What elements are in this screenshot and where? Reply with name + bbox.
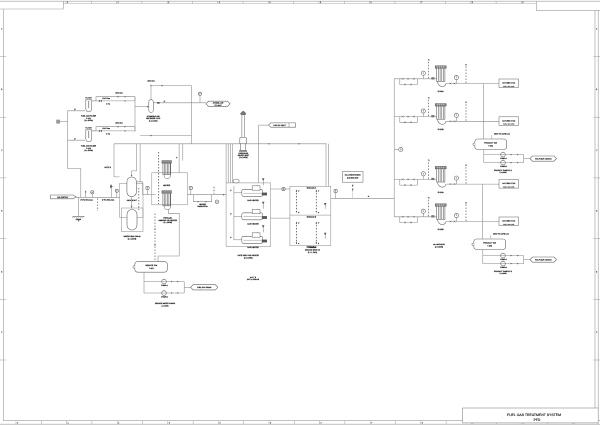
arrow heater unit H-1 bbox=[262, 178, 264, 181]
arrow heater unit H-2 bbox=[262, 202, 264, 205]
border right double line bbox=[594, 10, 596, 408]
svg-text:T-302: T-302 bbox=[487, 244, 492, 247]
wire filter F-1 outlet pair bbox=[92, 100, 135, 102]
instrument circle train 2 b bbox=[454, 113, 458, 117]
bypass loop train 4 bbox=[400, 217, 418, 223]
svg-text:GATE SKID GAS HEATER: GATE SKID GAS HEATER bbox=[237, 254, 259, 257]
wire train 3 outlet bbox=[446, 183, 499, 185]
vessel knockout drum V-101 bbox=[127, 177, 136, 197]
svg-text:KNOCKOUT: KNOCKOUT bbox=[127, 199, 138, 202]
svg-text:2″-FG-001-A1A: 2″-FG-001-A1A bbox=[80, 199, 93, 202]
svg-text:(1 x 100%): (1 x 100%) bbox=[149, 119, 158, 122]
callout gas conditioning box bbox=[342, 172, 363, 183]
wire train 2 inlet bbox=[394, 116, 436, 118]
callout gas turbine 3 bbox=[499, 180, 519, 189]
bypass loop train 3 bbox=[400, 179, 418, 185]
wire knockout outlet top bbox=[136, 182, 142, 195]
arrow module B inlet bbox=[176, 157, 177, 159]
instrument circle main out bbox=[334, 189, 337, 192]
electric heater train 4 bbox=[435, 204, 446, 206]
svg-text:PRODUCT TAN: PRODUCT TAN bbox=[484, 142, 497, 145]
callout gas turbine 4 bbox=[499, 217, 519, 226]
wire zone flag to filter header bbox=[60, 121, 67, 123]
svg-text:E-202B: E-202B bbox=[438, 228, 445, 231]
wire tank G1 to pumps bbox=[483, 150, 485, 163]
pump drain B bbox=[162, 291, 167, 296]
wire drop to tank 2 bbox=[481, 184, 483, 239]
callout GAS SUPPLY bbox=[51, 195, 77, 199]
right ruler ticks bbox=[594, 56, 600, 58]
svg-text:GAS HEATER: GAS HEATER bbox=[247, 246, 259, 249]
svg-text:GAS HEATER: GAS HEATER bbox=[247, 223, 259, 226]
svg-text:(1 x 100%): (1 x 100%) bbox=[128, 237, 137, 240]
svg-text:(2 + 1 PKG): (2 + 1 PKG) bbox=[308, 251, 318, 254]
package box seal drum bbox=[122, 208, 144, 232]
svg-text:FGH PUMP STATION: FGH PUMP STATION bbox=[535, 258, 552, 261]
instrument branch 1 bbox=[85, 191, 87, 198]
pump G2 B bbox=[501, 261, 506, 266]
wire header drops to heater skid bbox=[225, 144, 227, 183]
arrowheads filter F-2 bbox=[125, 126, 126, 127]
package box knockout drum bbox=[120, 184, 144, 218]
wire distribution header bbox=[393, 79, 395, 217]
top-left revision box bbox=[0, 1, 63, 9]
instrument dashed drop main bbox=[97, 199, 99, 212]
svg-text:T: T bbox=[456, 177, 457, 180]
standby dashed risers row2 bbox=[296, 222, 298, 244]
instrument dashed train 3 b bbox=[465, 167, 467, 184]
wire service tank to pumps bbox=[143, 272, 145, 293]
wire pumps G2 collector bbox=[523, 256, 525, 264]
wire dashed drain line bbox=[154, 214, 156, 262]
svg-text:GA SUPPLY: GA SUPPLY bbox=[57, 196, 69, 199]
package box gate heater skid bbox=[226, 183, 270, 247]
instrument dashed train 1 b bbox=[465, 67, 467, 84]
svg-text:T: T bbox=[456, 214, 457, 217]
svg-text:FILTER: FILTER bbox=[85, 127, 92, 130]
svg-text:T: T bbox=[423, 110, 424, 113]
wire train 4 inlet bbox=[394, 216, 436, 218]
svg-text:TO UNIT: TO UNIT bbox=[214, 104, 222, 107]
top ruler ticks bbox=[65, 1, 67, 3]
callout vent flag bbox=[269, 123, 296, 127]
wire header drops to module B bbox=[178, 144, 180, 173]
svg-text:E-201A: E-201A bbox=[438, 90, 445, 93]
instrument dashed drop conditioning bbox=[352, 185, 354, 188]
svg-text:SIMULATION: SIMULATION bbox=[197, 205, 208, 208]
svg-text:PFD: PFD bbox=[534, 418, 541, 422]
wire tank G2 to pumps bbox=[482, 250, 484, 264]
electric heater train 3 bbox=[435, 166, 446, 168]
divider standby module bbox=[290, 214, 331, 216]
instrument dashed train 4 a bbox=[428, 200, 430, 217]
arrows drain pumps bbox=[171, 281, 172, 282]
bypass loop train 2 bbox=[400, 117, 418, 123]
instrument circle train 3 b bbox=[454, 176, 458, 180]
svg-text:FGH PUMP STATION: FGH PUMP STATION bbox=[535, 157, 552, 160]
svg-text:GA CONDITIONING: GA CONDITIONING bbox=[345, 174, 361, 177]
electric heater train 1 bbox=[435, 66, 446, 68]
svg-text:MODULE A: MODULE A bbox=[307, 187, 317, 190]
exchanger E-101 upper bbox=[162, 161, 172, 164]
wire train 3 inlet bbox=[394, 178, 436, 180]
svg-text:2 x 100%: 2 x 100% bbox=[499, 171, 507, 174]
svg-text:T-401: T-401 bbox=[149, 267, 154, 270]
wire vent flag line bbox=[259, 124, 269, 126]
wire filter header down to main line bbox=[68, 169, 81, 198]
arrows standby bbox=[324, 203, 326, 206]
wire vent loop right vertical bbox=[191, 86, 193, 144]
svg-text:T: T bbox=[423, 173, 424, 176]
arrow heater unit H-3 bbox=[262, 225, 264, 228]
svg-text:SERVICE TAN: SERVICE TAN bbox=[145, 264, 157, 267]
svg-text:GA TURB GT #2: GA TURB GT #2 bbox=[502, 119, 515, 122]
wire pumps G1 collector bbox=[523, 155, 525, 163]
svg-text:T: T bbox=[456, 76, 457, 79]
instrument circle PI-2 bbox=[115, 189, 118, 192]
svg-text:T-301: T-301 bbox=[488, 144, 493, 147]
tank service bbox=[135, 262, 168, 273]
svg-text:T: T bbox=[423, 72, 424, 75]
svg-text:(2 x 100%): (2 x 100%) bbox=[84, 149, 93, 152]
svg-text:GA TURB GT #1: GA TURB GT #1 bbox=[502, 82, 515, 85]
wire knockout to seal drum bbox=[131, 197, 133, 209]
package box gas heater module bbox=[152, 173, 188, 205]
instrument circle after knockout bbox=[146, 186, 149, 189]
arrows pumps G2 bbox=[511, 255, 512, 256]
svg-text:FUEL GAS TREATMENT SYSTEM: FUEL GAS TREATMENT SYSTEM bbox=[507, 413, 561, 417]
svg-text:NOTE 3: NOTE 3 bbox=[104, 166, 111, 169]
instrument circle train 4 a bbox=[421, 209, 425, 213]
exchanger E-102 lower bbox=[162, 191, 172, 194]
heater unit H-3 bbox=[234, 239, 242, 241]
wire filter F-2 outlet pair bbox=[92, 130, 135, 132]
border left line bbox=[2, 9, 4, 421]
wire skid to standby bottom bbox=[271, 217, 290, 219]
svg-text:E-201B: E-201B bbox=[438, 128, 445, 131]
instrument circle PI-1 bbox=[91, 191, 94, 194]
wire vent loop up bbox=[150, 86, 152, 100]
svg-text:(2 x 100%): (2 x 100%) bbox=[244, 256, 253, 259]
standby dashed risers row1 bbox=[296, 190, 298, 213]
wire header left drop bbox=[114, 144, 120, 177]
wire exchanger drain path bbox=[158, 210, 179, 262]
svg-text:T: T bbox=[456, 114, 457, 117]
valve branch with instrument bbox=[111, 184, 113, 197]
border bottom ruler lines bbox=[3, 420, 600, 422]
svg-text:ATM Vent: ATM Vent bbox=[115, 92, 123, 95]
instrument circle train 3 a bbox=[421, 172, 425, 176]
svg-text:2: 2 bbox=[400, 148, 401, 151]
electric heater train 2 bbox=[435, 104, 446, 106]
heater unit H-1 bbox=[234, 192, 242, 194]
svg-text:ATM Vent: ATM Vent bbox=[147, 80, 155, 83]
instrument circle bypass bbox=[215, 200, 218, 203]
valve filter F-2 b bbox=[117, 126, 119, 128]
bottom ruler ticks bbox=[15, 421, 17, 425]
svg-text:VENT TO SAFE LOC: VENT TO SAFE LOC bbox=[494, 132, 511, 135]
instrument circle after module B bbox=[189, 186, 192, 189]
tank G2 bbox=[474, 239, 506, 250]
bypass loop train 1 bbox=[400, 79, 418, 85]
wire train 1 outlet bbox=[446, 83, 499, 85]
callout gas turbine 1 bbox=[499, 79, 519, 88]
instrument dashed train 4 b bbox=[465, 205, 467, 222]
pump G1 B bbox=[501, 160, 506, 165]
svg-text:(2 x 100%): (2 x 100%) bbox=[435, 245, 444, 248]
svg-text:E-202A: E-202A bbox=[438, 191, 445, 194]
wire main line to header bbox=[331, 197, 394, 199]
pump G1 A bbox=[501, 152, 506, 157]
wire skid to standby top bbox=[271, 188, 290, 190]
wire vent loop top bbox=[151, 85, 192, 87]
wire drain collector bbox=[183, 282, 185, 293]
title block bbox=[463, 408, 599, 423]
arrowheads filter F-1 bbox=[125, 96, 126, 97]
valve filter F-1 b bbox=[117, 96, 119, 98]
mini seal vessel on skid bbox=[233, 179, 239, 183]
relief valve stack PSV-1 bbox=[240, 111, 246, 115]
vessel atomizing air receiver bbox=[149, 100, 154, 113]
wire train 2 outlet bbox=[446, 120, 499, 122]
callout ATOMIZING AIR TO UNIT bbox=[206, 101, 230, 106]
svg-text:(2 x 100%): (2 x 100%) bbox=[84, 119, 93, 122]
svg-text:PRODUCT TAN: PRODUCT TAN bbox=[483, 242, 496, 245]
wire atomizing outlet bbox=[153, 102, 206, 104]
svg-text:VENT TO SAFE LOC: VENT TO SAFE LOC bbox=[493, 232, 510, 235]
tank G1 bbox=[475, 139, 507, 150]
instrument circle train 2 a bbox=[421, 109, 425, 113]
wire vent loop return bbox=[140, 135, 191, 137]
zone circle header bbox=[399, 147, 403, 151]
border top ruler inner line bbox=[63, 3, 536, 5]
top-right corner box bbox=[536, 1, 600, 10]
svg-text:ATM Vent: ATM Vent bbox=[115, 122, 123, 125]
wire skid internal header bbox=[233, 186, 235, 240]
instrument circle between boxes bbox=[282, 187, 285, 190]
svg-text:2 x 100%: 2 x 100% bbox=[161, 304, 169, 307]
svg-text:& MORE UNIT: & MORE UNIT bbox=[347, 176, 359, 179]
zone flag square A bbox=[56, 120, 60, 124]
wire module B outlet bbox=[188, 194, 227, 196]
wire filter merge vertical bbox=[134, 97, 136, 132]
callout pump station G1 bbox=[530, 156, 557, 161]
drain strainer symbol bbox=[72, 215, 84, 217]
wire merged feed to atomizing vessel bbox=[135, 106, 149, 108]
instrument dashed train 2 a bbox=[428, 100, 430, 117]
wire bypass dip bbox=[193, 195, 211, 202]
wire feed to filter 1 bbox=[68, 110, 85, 112]
svg-text:BYP Flow: BYP Flow bbox=[103, 97, 111, 100]
left ruler ticks bbox=[0, 56, 6, 58]
wire train 4 outlet bbox=[446, 221, 499, 223]
svg-text:20°C 1 ATM AIR: 20°C 1 ATM AIR bbox=[247, 278, 260, 281]
svg-text:2″-FG-002-A1A: 2″-FG-002-A1A bbox=[102, 199, 115, 202]
valve filter F-2 a bbox=[99, 130, 102, 132]
wire header drop b bbox=[139, 144, 141, 183]
wire main gas line left bbox=[76, 196, 119, 198]
svg-text:HEATER: HEATER bbox=[163, 184, 171, 187]
vessel seal drum V-102 bbox=[127, 210, 137, 231]
svg-text:FILTER: FILTER bbox=[85, 97, 92, 100]
wire drop to tank 1 bbox=[483, 84, 485, 140]
instrument dashed train 3 a bbox=[428, 162, 430, 179]
instrument circle train 4 b bbox=[454, 213, 458, 217]
pump G2 A bbox=[501, 253, 506, 258]
callout fuel gas drain bbox=[191, 285, 218, 290]
svg-text:HGS UP VENT: HGS UP VENT bbox=[274, 124, 287, 127]
svg-text:MODULE B: MODULE B bbox=[307, 215, 317, 218]
heater unit H-2 bbox=[234, 215, 242, 217]
svg-text:GAS HEATER: GAS HEATER bbox=[247, 199, 259, 202]
dashed strip knockout box bbox=[138, 188, 140, 210]
wire header drop to knockout vessel bbox=[132, 144, 137, 176]
instrument dashed train 1 a bbox=[428, 62, 430, 79]
instrument dashed train 2 b bbox=[465, 104, 467, 121]
svg-text:FUEL GAS DRAIN: FUEL GAS DRAIN bbox=[197, 286, 212, 289]
wire filter feed header vertical bbox=[67, 111, 69, 169]
svg-text:BYP Flow: BYP Flow bbox=[103, 127, 111, 130]
svg-text:GA TURB GT #3: GA TURB GT #3 bbox=[502, 182, 515, 185]
svg-text:2 x 100%: 2 x 100% bbox=[499, 272, 507, 275]
instrument dashed line module B bbox=[158, 152, 160, 204]
instrument circle atomizing bbox=[198, 92, 201, 95]
callout pump station G2 bbox=[530, 257, 557, 262]
instrument circle train 1 b bbox=[454, 75, 458, 79]
instrument circle train 1 a bbox=[421, 71, 425, 75]
wire header right drops to standby module bbox=[325, 144, 327, 187]
wire train 1 inlet bbox=[394, 78, 436, 80]
wire relief header bbox=[114, 143, 327, 145]
instrument dashed drop module B out bbox=[213, 187, 215, 194]
package box standby modules bbox=[290, 186, 331, 245]
valve filter F-1 a bbox=[99, 100, 102, 102]
wire feed to filter 2 bbox=[68, 139, 85, 141]
svg-text:(1 x 100%): (1 x 100%) bbox=[164, 221, 173, 224]
wire knockout outlet bbox=[143, 194, 156, 196]
wire drain drop bbox=[78, 197, 80, 216]
pump drain A bbox=[162, 279, 167, 284]
svg-text:(1 x 100%): (1 x 100%) bbox=[239, 156, 248, 159]
wire vent flag drop bbox=[258, 125, 260, 183]
svg-text:T: T bbox=[423, 210, 424, 213]
arrows pumps G1 bbox=[511, 154, 512, 155]
border top outer line bbox=[0, 0, 600, 2]
svg-text:GA TURB GT #4: GA TURB GT #4 bbox=[502, 220, 515, 223]
callout gas turbine 2 bbox=[499, 117, 519, 126]
